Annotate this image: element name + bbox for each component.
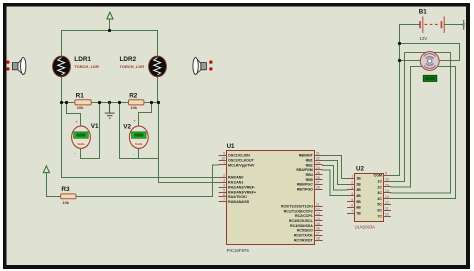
U1 right pin numbers	[316, 152, 320, 241]
U1 left pin numbers	[221, 152, 225, 202]
wire RB3 to U2 4B	[323, 170, 348, 196]
svg-text:R2: R2	[129, 93, 138, 100]
svg-text:7: 7	[351, 209, 353, 213]
svg-text:U2: U2	[356, 165, 364, 172]
wire motor right terminal	[439, 60, 460, 62]
node supply arrow junction	[108, 29, 111, 32]
svg-text:2B: 2B	[356, 182, 361, 186]
svg-text:RC5/SDO: RC5/SDO	[297, 229, 313, 233]
svg-text:RC2/CCP1: RC2/CCP1	[295, 214, 313, 218]
motor M1	[420, 52, 439, 71]
U1 left pin stubs	[219, 156, 227, 202]
node battery branch junction	[398, 42, 401, 45]
wire motor top box	[405, 52, 451, 54]
node LDR2 divider junction	[157, 101, 160, 104]
wire V2 minus left drop	[119, 103, 121, 159]
svg-text:6C: 6C	[377, 209, 382, 213]
svg-text:15: 15	[316, 222, 320, 226]
svg-text:7B: 7B	[356, 211, 361, 215]
svg-text:V1: V1	[91, 123, 99, 130]
svg-text:14: 14	[385, 189, 389, 193]
svg-text:OSC1/CLKIN: OSC1/CLKIN	[228, 154, 250, 158]
motor green tag	[423, 75, 437, 81]
svg-text:18: 18	[316, 236, 320, 240]
U2 right pin stubs	[384, 176, 391, 217]
svg-text:RC6/TX/CK: RC6/TX/CK	[294, 234, 313, 238]
wire R3 to MCLR run	[76, 165, 219, 197]
resistor R1	[75, 100, 91, 105]
svg-text:RC0/T1OSO/T1CKI: RC0/T1OSO/T1CKI	[281, 204, 313, 208]
svg-text:R3: R3	[61, 186, 70, 193]
svg-text:4: 4	[223, 183, 225, 187]
svg-text:V2: V2	[123, 123, 131, 130]
svg-text:26: 26	[316, 176, 320, 180]
wire motor left terminal	[400, 60, 421, 62]
svg-text:10k: 10k	[62, 200, 69, 205]
wire RA1 line	[159, 182, 219, 184]
svg-text:RA4/T0CKI: RA4/T0CKI	[228, 195, 247, 199]
wire V1 minus loop	[81, 103, 100, 159]
svg-text:LDR1: LDR1	[74, 56, 91, 63]
U2 right pin numbers	[385, 172, 389, 217]
wire U2 3C riser	[391, 53, 451, 194]
svg-text:U1: U1	[227, 143, 235, 150]
torch icon left	[6, 58, 26, 75]
svg-text:17: 17	[316, 232, 320, 236]
ground	[105, 103, 115, 119]
svg-text:5C: 5C	[377, 203, 382, 207]
voltmeter V1	[72, 120, 91, 156]
svg-text:3: 3	[351, 186, 353, 190]
svg-text:12: 12	[316, 207, 320, 211]
svg-text:15: 15	[385, 183, 389, 187]
svg-text:LDR2: LDR2	[120, 56, 137, 63]
svg-text:12: 12	[385, 201, 389, 205]
power flag arrow left	[43, 166, 49, 173]
resistor R2	[129, 100, 144, 105]
svg-text:1B: 1B	[356, 177, 361, 181]
svg-text:10k: 10k	[77, 105, 84, 110]
svg-text:5B: 5B	[356, 200, 361, 204]
svg-text:2C: 2C	[377, 185, 382, 189]
U1 left pin labels	[228, 154, 256, 204]
power flag arrow top	[107, 12, 113, 19]
wire V2 minus horizontal	[120, 158, 159, 160]
svg-text:RB4: RB4	[306, 173, 313, 177]
svg-text:OSC2/CLKOUT: OSC2/CLKOUT	[228, 158, 255, 162]
svg-text:COM: COM	[374, 174, 382, 178]
svg-text:RC4/SDI/SDA: RC4/SDI/SDA	[290, 224, 313, 228]
junction dots	[60, 29, 401, 104]
wire power arrow 2 stem	[46, 173, 48, 196]
U2 left pin stubs	[347, 179, 354, 214]
svg-text:25: 25	[316, 171, 320, 175]
svg-text:10: 10	[385, 212, 389, 216]
wire R3 left lead	[47, 196, 61, 198]
wire LDR2 top lead	[157, 31, 159, 58]
wire U2 1C riser	[391, 53, 405, 182]
wire RB1 to U2 2B	[323, 161, 348, 185]
svg-text:7: 7	[223, 198, 225, 202]
U2 left pin numbers	[351, 175, 353, 214]
svg-text:RA2/AN2/VREF-: RA2/AN2/VREF-	[228, 185, 256, 189]
svg-text:TORCH_LDR: TORCH_LDR	[74, 64, 99, 69]
svg-text:9: 9	[385, 172, 387, 176]
svg-text:21: 21	[316, 152, 320, 156]
svg-text:RA3/AN3/VREF+: RA3/AN3/VREF+	[228, 190, 256, 194]
svg-text:ULN2003A: ULN2003A	[355, 224, 376, 229]
wire RB0 to U2 1B	[323, 156, 348, 179]
node V1 plus junction	[65, 101, 68, 104]
voltmeter V2	[129, 119, 148, 157]
node V1 minus junction	[98, 101, 101, 104]
svg-text:7C: 7C	[377, 214, 382, 218]
svg-text:TORCH_LDR: TORCH_LDR	[120, 64, 145, 69]
svg-text:RA0/AN0: RA0/AN0	[228, 176, 243, 180]
svg-text:RB6/PGC: RB6/PGC	[297, 183, 313, 187]
svg-text:11: 11	[385, 207, 389, 211]
svg-text:3: 3	[223, 179, 225, 183]
wire node LDR2 to RA1 drop	[158, 103, 160, 183]
svg-text:27: 27	[316, 181, 320, 185]
svg-text:6B: 6B	[356, 206, 361, 210]
svg-text:4: 4	[351, 192, 353, 196]
wire V2 plus tap	[139, 103, 152, 127]
svg-text:4C: 4C	[377, 197, 382, 201]
wire power arrow 1 stem	[109, 19, 111, 31]
wire LDR2 bottom lead	[157, 76, 159, 103]
svg-text:Volts: Volts	[135, 142, 143, 146]
LDR LDR1	[53, 56, 71, 77]
svg-text:RB3/PGM: RB3/PGM	[296, 168, 312, 172]
torch icon right	[193, 58, 213, 75]
wire U2 2C riser	[391, 67, 421, 188]
wire U2 4C riser	[391, 67, 456, 199]
svg-text:3C: 3C	[377, 191, 382, 195]
node V2 minus junction	[118, 101, 121, 104]
wire node LDR1 to RA0 drop	[61, 103, 63, 178]
svg-text:+: +	[75, 120, 78, 125]
svg-text:B1: B1	[419, 9, 427, 16]
svg-text:PIC16F876: PIC16F876	[227, 248, 250, 253]
U1 right pin labels	[281, 154, 314, 243]
svg-text:RC7/RX/DT: RC7/RX/DT	[294, 238, 314, 242]
svg-text:5: 5	[223, 188, 225, 192]
node V2 plus junction	[150, 101, 153, 104]
wire V1 plus tap	[67, 103, 81, 127]
node motor left junction	[398, 59, 401, 62]
resistor R3	[61, 194, 76, 199]
svg-text:MCLR/Vpp/THV: MCLR/Vpp/THV	[228, 163, 255, 167]
wire LDR1 top lead	[61, 31, 63, 58]
svg-text:+: +	[133, 119, 136, 124]
svg-text:28: 28	[316, 186, 320, 190]
wire V2 minus stem	[138, 148, 140, 158]
svg-text:RB1: RB1	[306, 158, 313, 162]
svg-text:13: 13	[316, 212, 320, 216]
svg-text:RA5/AN4/SS: RA5/AN4/SS	[228, 200, 250, 204]
svg-text:RC1/T1OSI/CCP2: RC1/T1OSI/CCP2	[284, 209, 313, 213]
svg-text:2: 2	[351, 180, 353, 184]
svg-text:R1: R1	[76, 93, 85, 100]
wire top supply rail	[62, 30, 158, 32]
node LDR1 divider junction	[60, 101, 63, 104]
svg-text:RB0/INT: RB0/INT	[299, 154, 314, 158]
svg-text:RB2: RB2	[306, 163, 313, 167]
svg-text:6: 6	[351, 204, 353, 208]
svg-text:RC3/SCK/SCL: RC3/SCK/SCL	[289, 219, 314, 223]
svg-text:RA1/AN1: RA1/AN1	[228, 181, 243, 185]
svg-text:2: 2	[223, 174, 225, 178]
svg-text:13: 13	[385, 195, 389, 199]
wire RB2 to U2 3B	[323, 166, 348, 191]
wire divider rail	[62, 102, 158, 104]
svg-text:16: 16	[385, 178, 389, 182]
node ground junction	[108, 101, 111, 104]
svg-text:10: 10	[221, 156, 225, 160]
svg-text:1: 1	[351, 175, 353, 179]
svg-text:16: 16	[316, 227, 320, 231]
op-amp U1 PIC16F876 body	[227, 151, 315, 245]
wire RA0 line	[62, 177, 219, 179]
svg-text:24: 24	[316, 166, 320, 170]
U1 right pin stubs	[315, 156, 323, 241]
svg-text:1C: 1C	[377, 180, 382, 184]
svg-text:9: 9	[223, 152, 225, 156]
svg-text:1: 1	[223, 161, 225, 165]
U2 right pin labels	[374, 174, 383, 219]
svg-text:14: 14	[316, 217, 320, 221]
svg-text:4B: 4B	[356, 194, 361, 198]
wire U2 COM to battery vertical	[391, 25, 400, 176]
driver U2 ULN2003A body	[355, 174, 384, 222]
LDR LDR2	[149, 56, 167, 77]
svg-text:RB7/PGD: RB7/PGD	[297, 188, 313, 192]
U2 left pin labels	[356, 177, 361, 216]
battery B1	[419, 17, 465, 33]
wire LDR1 bottom lead	[61, 76, 63, 103]
wire battery left lead	[400, 24, 420, 26]
svg-text:12V: 12V	[419, 36, 427, 41]
svg-text:Volts: Volts	[77, 142, 85, 146]
svg-text:11: 11	[316, 202, 320, 206]
svg-text:23: 23	[316, 161, 320, 165]
wire battery branch top	[400, 44, 460, 61]
svg-text:3B: 3B	[356, 188, 361, 192]
svg-text:10k: 10k	[130, 105, 137, 110]
wire battery right lead	[445, 24, 464, 26]
svg-text:5: 5	[351, 198, 353, 202]
svg-text:6: 6	[223, 193, 225, 197]
svg-text:22: 22	[316, 156, 320, 160]
svg-text:RB5: RB5	[306, 178, 313, 182]
